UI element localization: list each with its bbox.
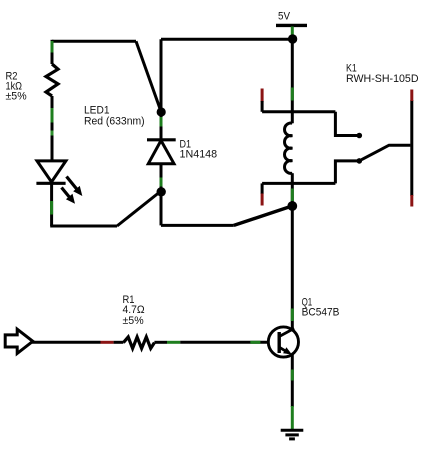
wire green pin mark collector bbox=[291, 309, 294, 322]
wire emitter down bbox=[291, 355, 294, 408]
wire green pin mark R2 top bbox=[51, 41, 54, 53]
wire green pin mark R2 bottom bbox=[51, 108, 54, 123]
svg-text:RWH-SH-105D: RWH-SH-105D bbox=[346, 73, 419, 85]
relay K1 common vertical bbox=[410, 100, 413, 196]
relay K1 coil bbox=[285, 123, 293, 173]
node 5V junction dot bbox=[288, 34, 297, 43]
transistor Q1 collector line bbox=[279, 328, 294, 336]
wire diagonal to relay node C bbox=[234, 206, 292, 225]
wire D1 anode to node B bbox=[160, 164, 163, 191]
diode D1 cathode bar bbox=[147, 138, 176, 141]
LED LED1 triangle bbox=[37, 161, 66, 182]
wire node A to D1 cathode bbox=[160, 112, 163, 141]
transistor Q1 emitter line with arrow bbox=[279, 347, 288, 353]
node B junction dot bbox=[157, 187, 166, 196]
wire left vertical upper (R2 top lead) bbox=[51, 40, 54, 64]
resistor R1 bbox=[123, 337, 154, 348]
svg-text:1N4148: 1N4148 bbox=[180, 149, 218, 161]
relay K1 NC contact lead bbox=[335, 112, 359, 136]
wire R1 left lead bbox=[114, 341, 124, 344]
wire green pin mark coil bottom bbox=[291, 189, 294, 202]
transistor Q1 base bar bbox=[278, 332, 281, 353]
wire LED cathode down bbox=[50, 183, 53, 226]
input port arrow bbox=[5, 329, 33, 353]
svg-text:±5%: ±5% bbox=[123, 315, 144, 327]
ground bar 2 bbox=[285, 433, 298, 436]
ground bar 3 bbox=[289, 437, 295, 440]
power 5V bar bbox=[276, 24, 307, 27]
node A junction dot bbox=[157, 107, 166, 116]
wire green mark base pin bbox=[250, 341, 260, 344]
relay K1 bottom-left pin lead bbox=[261, 183, 264, 194]
wire coil bottom to node C bbox=[291, 173, 294, 206]
wire diagonal top-left to node A bbox=[136, 41, 161, 111]
relay K1 switch arm bbox=[362, 145, 411, 160]
relay K1 top rail bbox=[262, 110, 335, 113]
relay K1 pin tick top-left (red) bbox=[261, 89, 264, 103]
svg-text:Red (633nm): Red (633nm) bbox=[84, 115, 145, 127]
relay K1 pin tick top-right (red) bbox=[410, 90, 413, 102]
wire vertical from top wire to node A bbox=[160, 39, 163, 111]
wire node B branch horizontal bbox=[161, 224, 234, 227]
wire node B down bbox=[160, 191, 163, 225]
relay K1 pin tick bottom-left (red) bbox=[261, 194, 264, 206]
wire node C to collector bbox=[291, 206, 294, 330]
LED LED1 cathode bar bbox=[36, 182, 65, 185]
relay K1 NO contact lead bbox=[335, 161, 359, 184]
wire green ground lead bbox=[291, 406, 294, 429]
relay K1 top-left pin lead bbox=[261, 101, 264, 112]
LED light arrow 1 bbox=[67, 177, 83, 197]
wire top-left horizontal bbox=[52, 40, 136, 43]
diode D1 triangle bbox=[148, 141, 174, 164]
wire R2 bottom lead to LED bbox=[51, 96, 54, 162]
wire green mark R1 right bbox=[167, 341, 180, 344]
wire green pin mark LED bottom bbox=[50, 201, 53, 215]
wire top right horizontal to 5V node bbox=[161, 38, 293, 41]
wire red mark R1 left bbox=[101, 341, 114, 344]
svg-text:5V: 5V bbox=[278, 11, 290, 23]
wire green pin mark D1 top bbox=[160, 117, 163, 127]
wire to base bbox=[180, 341, 268, 344]
wire input horizontal (base run) bbox=[32, 341, 101, 344]
wire 5V node down to coil bbox=[291, 39, 294, 123]
relay K1 NO contact dot bbox=[357, 158, 363, 164]
wire green mark emitter bbox=[291, 370, 294, 381]
wire green pin mark coil top bbox=[291, 88, 294, 101]
ground bar 1 bbox=[281, 429, 304, 432]
svg-text:±5%: ±5% bbox=[6, 91, 27, 103]
wire green 5V stub bbox=[291, 27, 294, 38]
wire bottom of LED branch horizontal bbox=[50, 225, 117, 228]
resistor R2 bbox=[46, 64, 58, 96]
transistor Q1 circle bbox=[268, 327, 298, 357]
node C junction dot bbox=[287, 201, 297, 211]
wire green pin mark LED top bbox=[51, 131, 54, 136]
wire R1 right lead bbox=[154, 341, 167, 344]
wire diagonal LED branch to node B bbox=[117, 191, 161, 226]
LED light arrow 2 bbox=[62, 188, 76, 204]
wire green pin mark D1 bottom bbox=[160, 178, 163, 187]
relay K1 pin tick bottom-right (red) bbox=[410, 195, 413, 207]
svg-text:BC547B: BC547B bbox=[302, 307, 340, 319]
relay K1 bottom rail bbox=[262, 182, 335, 185]
relay K1 NC contact dot bbox=[357, 133, 363, 139]
